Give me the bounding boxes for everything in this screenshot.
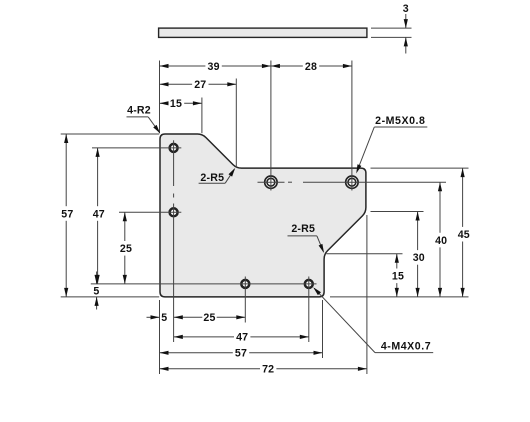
svg-text:72: 72	[262, 364, 274, 376]
svg-text:40: 40	[435, 235, 447, 247]
svg-text:3: 3	[403, 3, 409, 15]
svg-text:15: 15	[170, 98, 182, 110]
svg-text:25: 25	[120, 243, 132, 255]
svg-text:2-R5: 2-R5	[200, 172, 224, 184]
svg-text:25: 25	[203, 312, 215, 324]
svg-text:4-M4X0.7: 4-M4X0.7	[381, 341, 431, 353]
svg-text:30: 30	[413, 252, 425, 264]
svg-text:57: 57	[61, 208, 73, 220]
svg-text:45: 45	[458, 229, 470, 241]
svg-text:39: 39	[208, 61, 220, 73]
svg-text:4-R2: 4-R2	[127, 105, 151, 117]
svg-text:47: 47	[93, 208, 105, 220]
svg-text:47: 47	[236, 332, 248, 344]
svg-text:5: 5	[93, 286, 99, 298]
svg-text:28: 28	[305, 61, 317, 73]
svg-text:15: 15	[392, 271, 404, 283]
svg-text:2-R5: 2-R5	[291, 223, 315, 235]
svg-text:2-M5X0.8: 2-M5X0.8	[375, 115, 425, 127]
svg-text:27: 27	[194, 79, 206, 91]
svg-text:57: 57	[235, 348, 247, 360]
svg-text:5: 5	[161, 312, 167, 324]
